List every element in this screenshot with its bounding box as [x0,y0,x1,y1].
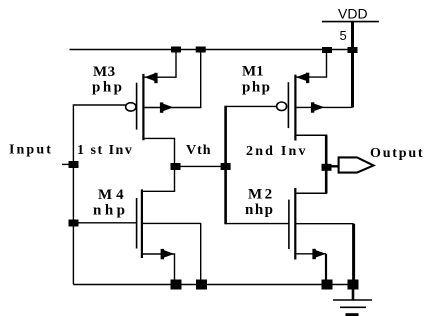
svg-text:Vth: Vth [186,143,212,158]
svg-text:5: 5 [340,28,347,43]
svg-text:M1: M1 [242,64,264,80]
svg-text:Output: Output [370,146,424,161]
svg-text:2nd Inv: 2nd Inv [246,144,308,159]
svg-text:M2: M2 [248,187,275,203]
svg-text:1 st Inv: 1 st Inv [77,143,133,158]
svg-text:M3: M3 [93,64,116,80]
svg-text:nhp: nhp [93,203,129,219]
svg-text:M4: M4 [98,187,128,203]
svg-text:php: php [242,80,272,96]
svg-text:Input: Input [9,143,53,158]
svg-text:nhp: nhp [245,202,275,218]
svg-text:VDD: VDD [338,6,368,22]
svg-text:php: php [92,80,125,96]
